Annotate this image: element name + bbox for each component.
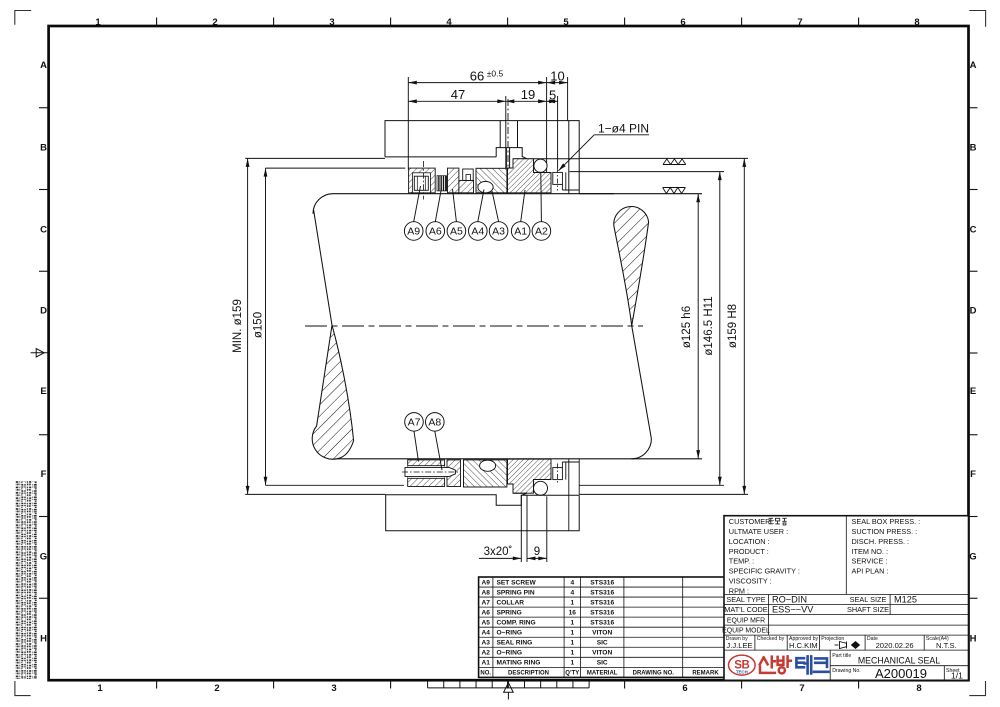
svg-text:A8: A8 [428,417,441,429]
svg-text:8: 8 [914,17,919,28]
SB TECH logo [729,655,756,675]
sleeve outline [313,194,702,459]
spring pin A8 [405,468,456,477]
svg-text:G: G [969,551,976,562]
projection symbol [835,642,860,649]
grid numbers top/bottom [95,17,921,694]
title block [724,516,969,681]
seal ring A3 [476,168,507,193]
svg-text:CUSTOMER :: CUSTOMER : [729,517,775,526]
svg-text:MAT’L CODE: MAT’L CODE [724,605,768,614]
svg-text:A6: A6 [481,609,490,616]
svg-text:ESS−−VV: ESS−−VV [772,605,814,615]
svg-text:6: 6 [680,17,685,28]
svg-text:A5: A5 [450,226,463,238]
mating ring (bottom) [508,459,552,493]
svg-text:DESCRIPTION: DESCRIPTION [508,671,549,677]
svg-text:±0.5: ±0.5 [487,69,504,79]
svg-text:STS316: STS316 [590,620,614,627]
svg-text:1: 1 [570,640,574,647]
svg-text:4: 4 [570,589,574,596]
svg-text:D: D [40,305,47,316]
svg-text:VISCOSITY :: VISCOSITY : [729,577,772,586]
svg-text:Q’TY: Q’TY [565,671,579,677]
svg-text:1: 1 [570,599,574,606]
svg-text:M125: M125 [894,594,917,604]
svg-text:API PLAN :: API PLAN : [852,567,889,576]
svg-text:SIC: SIC [597,660,608,667]
svg-text:A1: A1 [514,226,527,238]
svg-text:66: 66 [470,69,484,84]
svg-text:B: B [40,142,47,153]
svg-text:SIC: SIC [597,640,608,647]
svg-text:A: A [970,60,977,71]
svg-text:3x20˚: 3x20˚ [484,546,513,558]
svg-text:1−ø4 PIN: 1−ø4 PIN [598,122,649,136]
svg-text:COMP. RING: COMP. RING [497,620,536,627]
seal box top surface left [245,157,385,159]
o-ring (bottom gland) [534,481,548,495]
svg-text:EQUIP MFR: EQUIP MFR [727,617,765,624]
svg-text:1: 1 [570,660,574,667]
svg-text:MATERIAL: MATERIAL [587,671,618,677]
seal box bottom surface left [245,493,386,495]
compression ring A5 [448,168,459,193]
svg-text:COLLAR: COLLAR [497,599,525,606]
svg-text:1: 1 [570,630,574,637]
label 1-o4 PIN with leader [558,135,649,171]
svg-text:ø159 H8: ø159 H8 [727,304,739,348]
svg-text:A: A [40,60,47,71]
svg-text:2020.02.26: 2020.02.26 [876,641,914,650]
svg-text:4: 4 [570,579,574,586]
balloons A9 A6 A5 A4 A3 A1 A2 [404,173,550,241]
svg-text:MATING RING: MATING RING [497,660,541,667]
svg-text:DISCH. PRESS. :: DISCH. PRESS. : [852,537,910,546]
spring A6 [437,176,447,191]
svg-text:1/1: 1/1 [951,671,963,681]
svg-text:DRAWING NO.: DRAWING NO. [633,671,675,677]
svg-text:Drawing No.: Drawing No. [832,668,861,674]
svg-text:J.J.LEE: J.J.LEE [726,641,752,650]
svg-text:SEAL TYPE: SEAL TYPE [726,595,765,604]
svg-text:19: 19 [521,87,535,102]
svg-text:O−RING: O−RING [497,650,522,657]
svg-text:A9: A9 [407,226,420,238]
comp ring (bottom) [447,460,461,487]
extension top right o146.5 [570,171,724,173]
svg-text:D: D [970,305,977,316]
svg-text:EQUIP MODEL: EQUIP MODEL [722,628,770,635]
svg-text:A2: A2 [481,650,490,657]
o-ring A2 [534,159,547,172]
extension bottom right o146.5 [579,484,724,486]
svg-text:TECH: TECH [736,670,748,675]
balloons A7 A8 [405,413,444,470]
seal ring (bottom) [464,460,507,487]
svg-text:A3: A3 [492,226,505,238]
svg-text:16: 16 [569,609,577,616]
mating ring A1 [508,159,552,193]
svg-text:LOCATION :: LOCATION : [729,537,770,546]
seal box bore top left [266,167,406,169]
svg-text:STS316: STS316 [590,609,614,616]
drive pin (top) [553,172,579,190]
svg-text:1: 1 [97,683,103,694]
svg-text:1: 1 [570,650,574,657]
extension top right o159 [579,157,748,159]
gland plate top [385,121,579,194]
svg-text:10: 10 [550,69,564,84]
svg-text:A5: A5 [481,620,490,627]
svg-text:3: 3 [329,17,334,28]
svg-text:1: 1 [570,620,574,627]
svg-text:MIN. ø159: MIN. ø159 [232,299,244,353]
svg-text:SEAL BOX PRESS. :: SEAL BOX PRESS. : [852,517,921,526]
surface finish triangles top row [663,159,686,194]
dimension 47 / 19 / 5 [408,100,506,102]
svg-text:STS316: STS316 [590,579,614,586]
svg-text:REMARK: REMARK [692,671,719,677]
svg-text:PRODUCT :: PRODUCT : [729,547,769,556]
svg-text:A7: A7 [408,417,421,429]
svg-text:2: 2 [214,683,219,694]
svg-text:A3: A3 [481,640,490,647]
collar A7 (top section) [409,168,436,193]
svg-text:A9: A9 [481,579,490,586]
svg-text:3: 3 [331,683,336,694]
svg-text:NO.: NO. [480,671,491,677]
seal box bore bottom left [266,484,405,486]
svg-text:A1: A1 [481,660,490,667]
set screw A9 [414,176,428,190]
svg-text:VITON: VITON [592,650,612,657]
svg-text:2: 2 [212,17,217,28]
svg-text:ULTMATE USER :: ULTMATE USER : [729,527,788,536]
svg-text:E: E [970,386,976,397]
svg-text:A2: A2 [535,226,548,238]
svg-text:TEMP. :: TEMP. : [729,557,754,566]
svg-text:7: 7 [797,17,802,28]
svg-text:A200019: A200019 [875,666,927,681]
svg-text:H: H [970,633,977,644]
gland port centerline [507,99,509,171]
svg-text:A4: A4 [471,226,484,238]
svg-text:47: 47 [451,87,465,102]
drive pin (bottom) [553,459,579,531]
dimension MIN o159 [248,158,745,494]
svg-text:A6: A6 [429,226,442,238]
svg-text:H.C.KIM: H.C.KIM [789,641,818,650]
shaft centerline [305,325,643,327]
collar (bottom section) [408,460,445,487]
svg-text:SPRING PIN: SPRING PIN [497,589,535,596]
extension lines [407,77,409,169]
extension bottom right o159 [579,493,748,495]
svg-text:E: E [40,386,46,397]
svg-text:7: 7 [799,683,804,694]
left centering arrow [31,349,48,357]
svg-text:B: B [970,142,977,153]
o-ring A4 [478,181,493,192]
svg-text:SEAL SIZE: SEAL SIZE [850,595,887,604]
svg-text:A7: A7 [481,599,490,606]
dimension 66 +-0.5 / 10 [408,77,567,190]
svg-text:SUCTION PRESS. :: SUCTION PRESS. : [852,527,918,536]
bottom center scale comb [428,681,589,699]
svg-text:ø125 h6: ø125 h6 [681,306,693,348]
svg-text:STS316: STS316 [590,589,614,596]
svg-text:RO−DIN: RO−DIN [772,594,807,604]
svg-text:Part title: Part title [832,653,851,659]
svg-text:ø146.5 H11: ø146.5 H11 [703,296,715,355]
svg-text:VITON: VITON [592,630,612,637]
gland plate bottom [386,493,580,531]
svg-text:C: C [970,224,977,235]
svg-text:1: 1 [95,17,101,28]
svg-text:SERVICE :: SERVICE : [852,557,888,566]
svg-text:MECHANICAL SEAL: MECHANICAL SEAL [858,655,940,665]
svg-text:SPRING: SPRING [497,609,522,616]
dimension 3x20 / 9 [479,495,547,562]
svg-text:SPECIFIC GRAVITY :: SPECIFIC GRAVITY : [729,567,800,576]
svg-text:A4: A4 [481,630,490,637]
grid letters left/right [40,60,977,645]
svg-text:9: 9 [534,546,540,558]
svg-text:H: H [40,633,47,644]
svg-text:C: C [40,224,47,235]
svg-text:ø150: ø150 [253,312,265,338]
o-ring (bottom, on sleeve) [480,460,496,471]
svg-text:6: 6 [682,683,687,694]
svg-text:STS316: STS316 [590,599,614,606]
svg-text:SHAFT SIZE: SHAFT SIZE [847,605,889,614]
svg-text:G: G [40,551,47,562]
cone wall section lower-left (hatched teardrop) [312,325,353,459]
svg-text:A8: A8 [481,589,490,596]
svg-text:SEAL RING: SEAL RING [497,640,533,647]
svg-text:8: 8 [916,683,921,694]
BOM table [479,577,729,677]
svg-text:F: F [41,469,47,480]
svg-text:4: 4 [446,17,452,28]
svg-text:O−RING: O−RING [497,630,522,637]
svg-text:5: 5 [563,17,569,28]
svg-text:5: 5 [549,88,556,103]
svg-text:SET SCREW: SET SCREW [497,579,537,586]
cone wall section upper-right (hatched teardrop) [614,207,649,326]
svg-text:N.T.S.: N.T.S. [936,641,957,650]
svg-text:Projection: Projection [821,636,844,642]
svg-text:Checked by: Checked by [757,636,785,642]
svg-text:ITEM NO. :: ITEM NO. : [852,547,889,556]
svg-text:F: F [970,469,976,480]
